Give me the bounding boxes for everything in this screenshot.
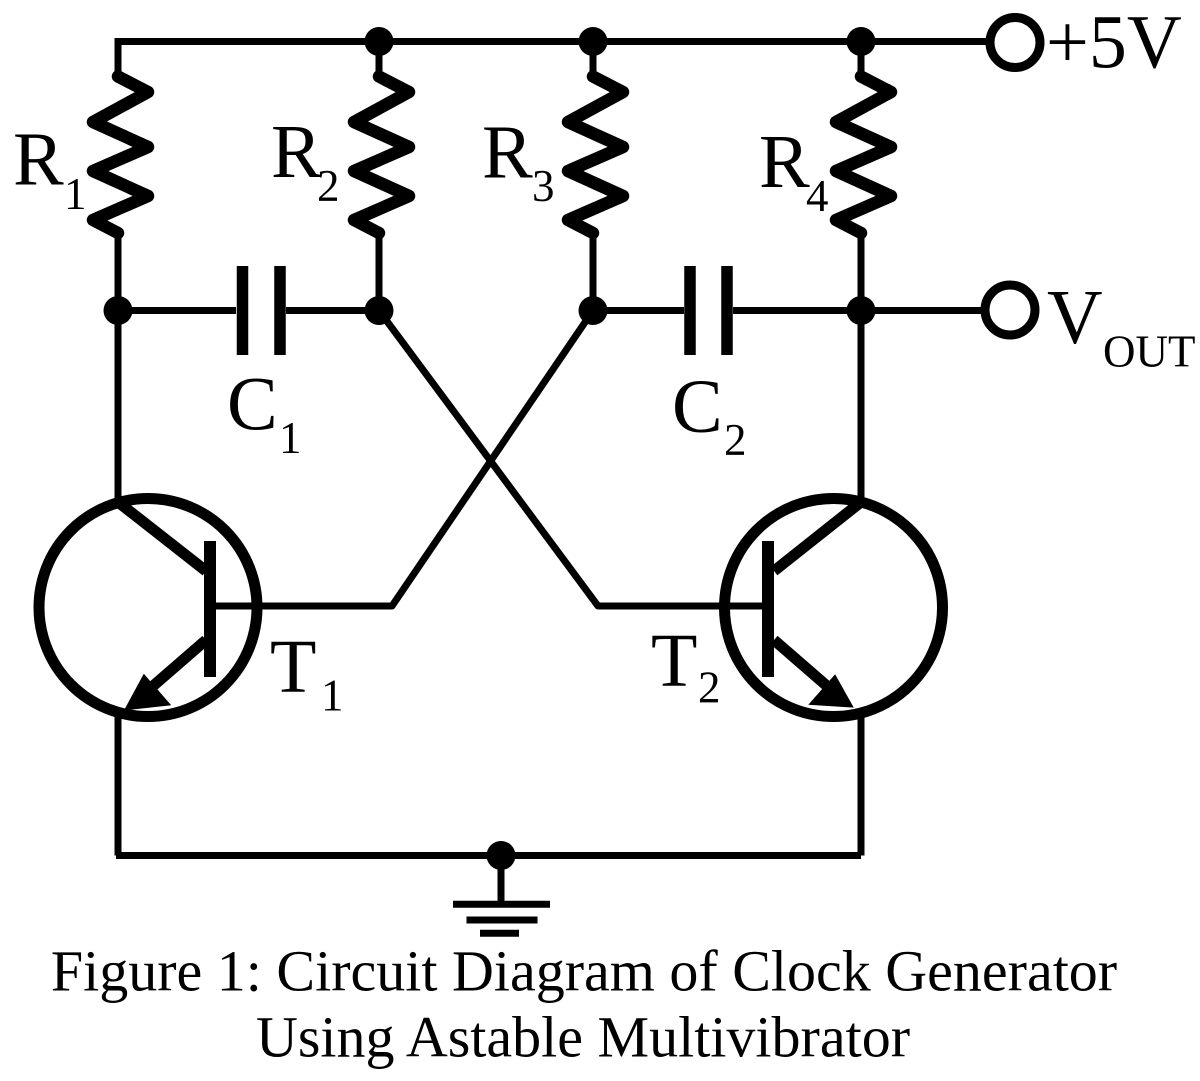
resistor R4: [858, 42, 865, 311]
wire node T1 collector to C1: [118, 307, 236, 314]
transistor T2: [725, 499, 943, 717]
resistor R3: [590, 42, 597, 311]
wire node T1 collector down to transistor: [115, 311, 122, 504]
wire bottom ground rail: [116, 852, 861, 859]
node top rail / R4: [847, 27, 876, 56]
svg-text:T: T: [651, 619, 697, 703]
node R2 / base T2 coupling: [365, 296, 394, 325]
terminal +5V: [990, 18, 1040, 68]
node ground junction: [487, 841, 516, 870]
resistor R2: [376, 42, 383, 311]
node top rail / R2: [365, 27, 394, 56]
wire node R3 to C2: [593, 307, 684, 314]
wire output node to terminal: [861, 307, 982, 314]
wire T1 emitter down to ground rail: [115, 713, 122, 856]
svg-text:R: R: [271, 110, 322, 194]
svg-text:1: 1: [64, 169, 87, 219]
svg-text:T: T: [270, 625, 316, 709]
svg-text:C: C: [672, 365, 723, 449]
wire C2 to node R4: [733, 307, 861, 314]
wire cross-coupling node R2 to base T2: [379, 311, 762, 607]
capacitor C2: [690, 266, 727, 355]
svg-text:R: R: [759, 120, 810, 204]
svg-text:OUT: OUT: [1103, 327, 1195, 377]
svg-text:3: 3: [532, 161, 555, 211]
svg-text:V: V: [1047, 274, 1103, 360]
transistor T1: [39, 499, 257, 717]
svg-text:2: 2: [317, 161, 340, 211]
wire C1 to node R2: [286, 307, 379, 314]
resistor R1: [115, 42, 122, 311]
wire top supply rail: [118, 42, 987, 78]
svg-text:R: R: [13, 117, 64, 201]
wire cross-coupling node R3 to base T1: [216, 311, 593, 607]
terminal Vout: [985, 285, 1035, 335]
ground: [453, 856, 550, 934]
svg-text:1: 1: [279, 413, 302, 463]
node R3 / base T1 coupling: [579, 296, 608, 325]
svg-text:2: 2: [724, 415, 747, 465]
wire node output down to transistor T2: [858, 311, 865, 504]
svg-text:C: C: [227, 363, 278, 447]
svg-text:Figure 1: Circuit Diagram of C: Figure 1: Circuit Diagram of Clock Gener…: [51, 939, 1117, 1004]
svg-text:4: 4: [806, 171, 829, 221]
wire T2 emitter down to ground rail: [858, 713, 865, 856]
svg-text:Using Astable Multivibrator: Using Astable Multivibrator: [256, 1005, 910, 1070]
capacitor C1: [243, 266, 281, 355]
node top rail / R3: [579, 27, 608, 56]
svg-text:+5V: +5V: [1046, 1, 1182, 85]
node R4 / collector T2 / output: [847, 296, 876, 325]
svg-text:2: 2: [698, 663, 721, 713]
svg-text:1: 1: [321, 671, 344, 721]
svg-text:R: R: [482, 111, 533, 195]
node collector T1: [104, 296, 133, 325]
